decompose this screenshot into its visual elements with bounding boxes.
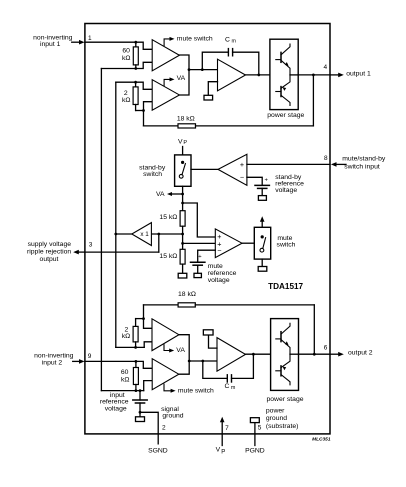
capacitor Cm channel 1 [202,52,228,69]
resistor 15 kOhm lower [180,249,185,264]
wire 18k to 2k top node channel 2 [144,305,153,328]
ground input reference [136,417,145,422]
svg-text:3: 3 [89,242,93,249]
svg-text:kΩ: kΩ [122,97,130,104]
wire pin 3 internal [158,234,160,252]
svg-text:2: 2 [162,425,166,432]
wire to power op-amp channel 2 [189,360,217,362]
svg-text:VA: VA [176,347,185,354]
switch contacts S1 [181,161,184,164]
svg-text:VA: VA [156,191,165,198]
resistor 2 kOhm channel 2 [136,318,144,320]
node VA tap channel 1 [164,79,170,85]
power stage box channel 1 [270,39,298,109]
wire 2k bottom node channel 2 [116,346,144,348]
svg-text:ripple rejection: ripple rejection [27,249,71,256]
svg-text:P: P [183,140,187,146]
resistor 18 kOhm channel 1 [144,125,179,127]
wire x1 output to VA rail [116,233,132,235]
svg-text:C: C [225,383,230,390]
svg-text:kΩ: kΩ [121,376,129,383]
svg-text:SGND: SGND [148,447,168,454]
svg-text:output 2: output 2 [348,350,373,357]
svg-text:kΩ: kΩ [122,55,130,62]
svg-text:reference: reference [100,399,129,406]
transistor pair Q3 Q4 channel 2 [276,323,290,354]
svg-text:7: 7 [225,425,229,432]
wire mute comparator output to mute switch [242,242,254,244]
svg-text:9: 9 [88,353,92,360]
svg-text:output 1: output 1 [346,71,371,78]
wire rail VA buffer (second left vertical) [115,82,117,347]
wire pin 8 row [247,163,330,165]
wire pin 1 internal to amplifier [85,42,152,49]
svg-text:power: power [266,407,285,414]
op-amp x1 ripple buffer [132,223,152,246]
svg-text:P: P [221,450,225,456]
svg-text:voltage: voltage [275,187,297,194]
stand-by switch S1 box [175,155,191,186]
svg-text:6: 6 [324,345,328,352]
node VA tap channel 2 [164,345,170,351]
svg-text:TDA1517: TDA1517 [268,282,303,291]
wire driver output channel 2 [246,353,271,355]
battery input reference voltage [139,391,141,400]
wire feedback vertical channel 1 [312,75,314,126]
battery mute reference voltage [198,250,216,262]
wire first-stage outputs join channel 1 [179,55,189,95]
svg-text:18 kΩ: 18 kΩ [177,115,195,122]
svg-text:MLC351: MLC351 [312,437,331,443]
svg-text:+: + [265,177,269,183]
wire feedback vertical channel 2 [313,305,315,354]
wire pin 9 internal [85,361,152,368]
svg-text:switch input: switch input [344,163,380,170]
wire rail input reference (left vertical) [100,69,102,391]
wire output 2 row [299,353,331,355]
node divider midpoint [181,233,184,236]
op-amp A4 channel 2 (VA buffer) [152,319,179,351]
svg-text:mute: mute [208,263,223,270]
op-amp stand-by comparator U2 [218,154,247,185]
svg-text:mute switch: mute switch [178,387,214,394]
svg-text:C: C [225,37,230,44]
transistor pair Q1 Q2 channel 1 [276,44,290,75]
svg-text:m: m [232,39,237,45]
op-amp A5 channel 2 (mute-switch tap) [152,359,179,390]
svg-text:kΩ: kΩ [122,333,130,340]
wire signal ground to pin 2 [139,411,142,414]
ground mute reference [194,273,201,277]
svg-text:(substrate): (substrate) [266,423,298,430]
op-amp A6 power stage driver channel 2 [217,338,246,372]
wire stand-by comparator output to switch [191,168,218,170]
wire to power op-amp channel 1 [189,69,218,71]
svg-text:60: 60 [122,48,130,55]
wire mute switch up arrow [261,221,263,228]
svg-text:output: output [40,256,59,263]
op-amp A2 channel 1 (VA buffer) [152,80,179,111]
svg-text:input 1: input 1 [40,41,61,48]
svg-text:4: 4 [323,64,327,71]
svg-text:V: V [178,138,183,145]
mute switch S2 box [254,227,270,259]
node mute switch tap channel 1 [164,39,170,46]
svg-text:switch: switch [143,171,162,178]
wire stand-by switch to divider [182,186,184,210]
ground stand-by reference [258,196,266,201]
svg-text:mute switch: mute switch [177,35,213,42]
ground mute switch [261,259,263,266]
IC outline box U1 TDA1517 [85,24,330,434]
battery stand-by reference voltage [247,177,262,185]
resistor 2 kOhm channel 1 [135,82,137,87]
svg-text:5: 5 [258,425,262,432]
node mute switch tap channel 2 [164,384,171,391]
svg-text:2: 2 [124,90,128,97]
svg-text:8: 8 [324,155,328,162]
svg-text:switch: switch [277,242,296,249]
svg-text:1: 1 [88,35,92,42]
resistor 60 kOhm channel 1 [135,42,137,47]
svg-text:18 kΩ: 18 kΩ [178,291,196,298]
wire 2k top node channel 1 [116,82,152,89]
svg-text:supply voltage: supply voltage [28,241,72,248]
svg-text:ground: ground [266,415,287,422]
switch contacts S2 [261,235,264,238]
svg-text:+: + [240,160,244,169]
svg-text:VA: VA [177,75,186,82]
resistor 15 kOhm upper [180,211,185,227]
svg-text:x 1: x 1 [140,231,149,238]
wire divider to x1 buffer input [151,233,182,235]
op-amp mute comparator U3 [215,229,242,258]
wire 60k bottom node channel 2 [101,390,143,392]
svg-text:mute/stand-by: mute/stand-by [342,156,386,163]
ground signal ground stub channel 2 driver [209,335,218,348]
svg-text:ground: ground [162,413,183,420]
pin 7 VP supply [221,421,223,446]
svg-text:15 kΩ: 15 kΩ [159,214,177,221]
capacitor Cm channel 2 [203,361,228,378]
resistor 18 kOhm channel 2 [144,304,179,306]
wire 60k bottom node channel 1 [101,62,152,68]
wire first-stage outputs join channel 2 [179,335,189,375]
wire step to mute comparator input 1 [181,202,184,205]
svg-text:−: − [217,246,221,255]
pin 5 PGND power ground [254,423,256,446]
ground signal ground stub channel 1 driver [208,82,217,96]
wire driver output channel 1 [246,74,270,76]
svg-text:60: 60 [121,369,129,376]
svg-text:power stage: power stage [267,112,304,119]
op-amp A3 power stage driver channel 1 [218,59,246,91]
op-amp A1 channel 1 (mute-switch tap) [152,40,179,71]
wire pin 1 external with arrow [72,41,81,43]
svg-text:−: − [240,173,244,182]
svg-text:m: m [231,385,236,391]
svg-text:V: V [216,447,221,454]
svg-text:input 2: input 2 [42,359,63,366]
svg-text:15 kΩ: 15 kΩ [159,253,177,260]
wire divider to mute comparator input 2 [181,242,184,245]
svg-text:PGND: PGND [245,447,265,454]
svg-text:voltage: voltage [208,277,230,284]
ground divider lower [182,264,184,273]
node VA label arrow [181,193,184,196]
wire 2k bottom node channel 1 [136,110,144,112]
power stage box channel 2 [271,319,299,391]
wire output 1 row [298,74,330,76]
svg-text:power stage: power stage [266,396,303,403]
resistor 60 kOhm channel 2 [135,360,138,363]
svg-text:voltage: voltage [105,406,127,413]
